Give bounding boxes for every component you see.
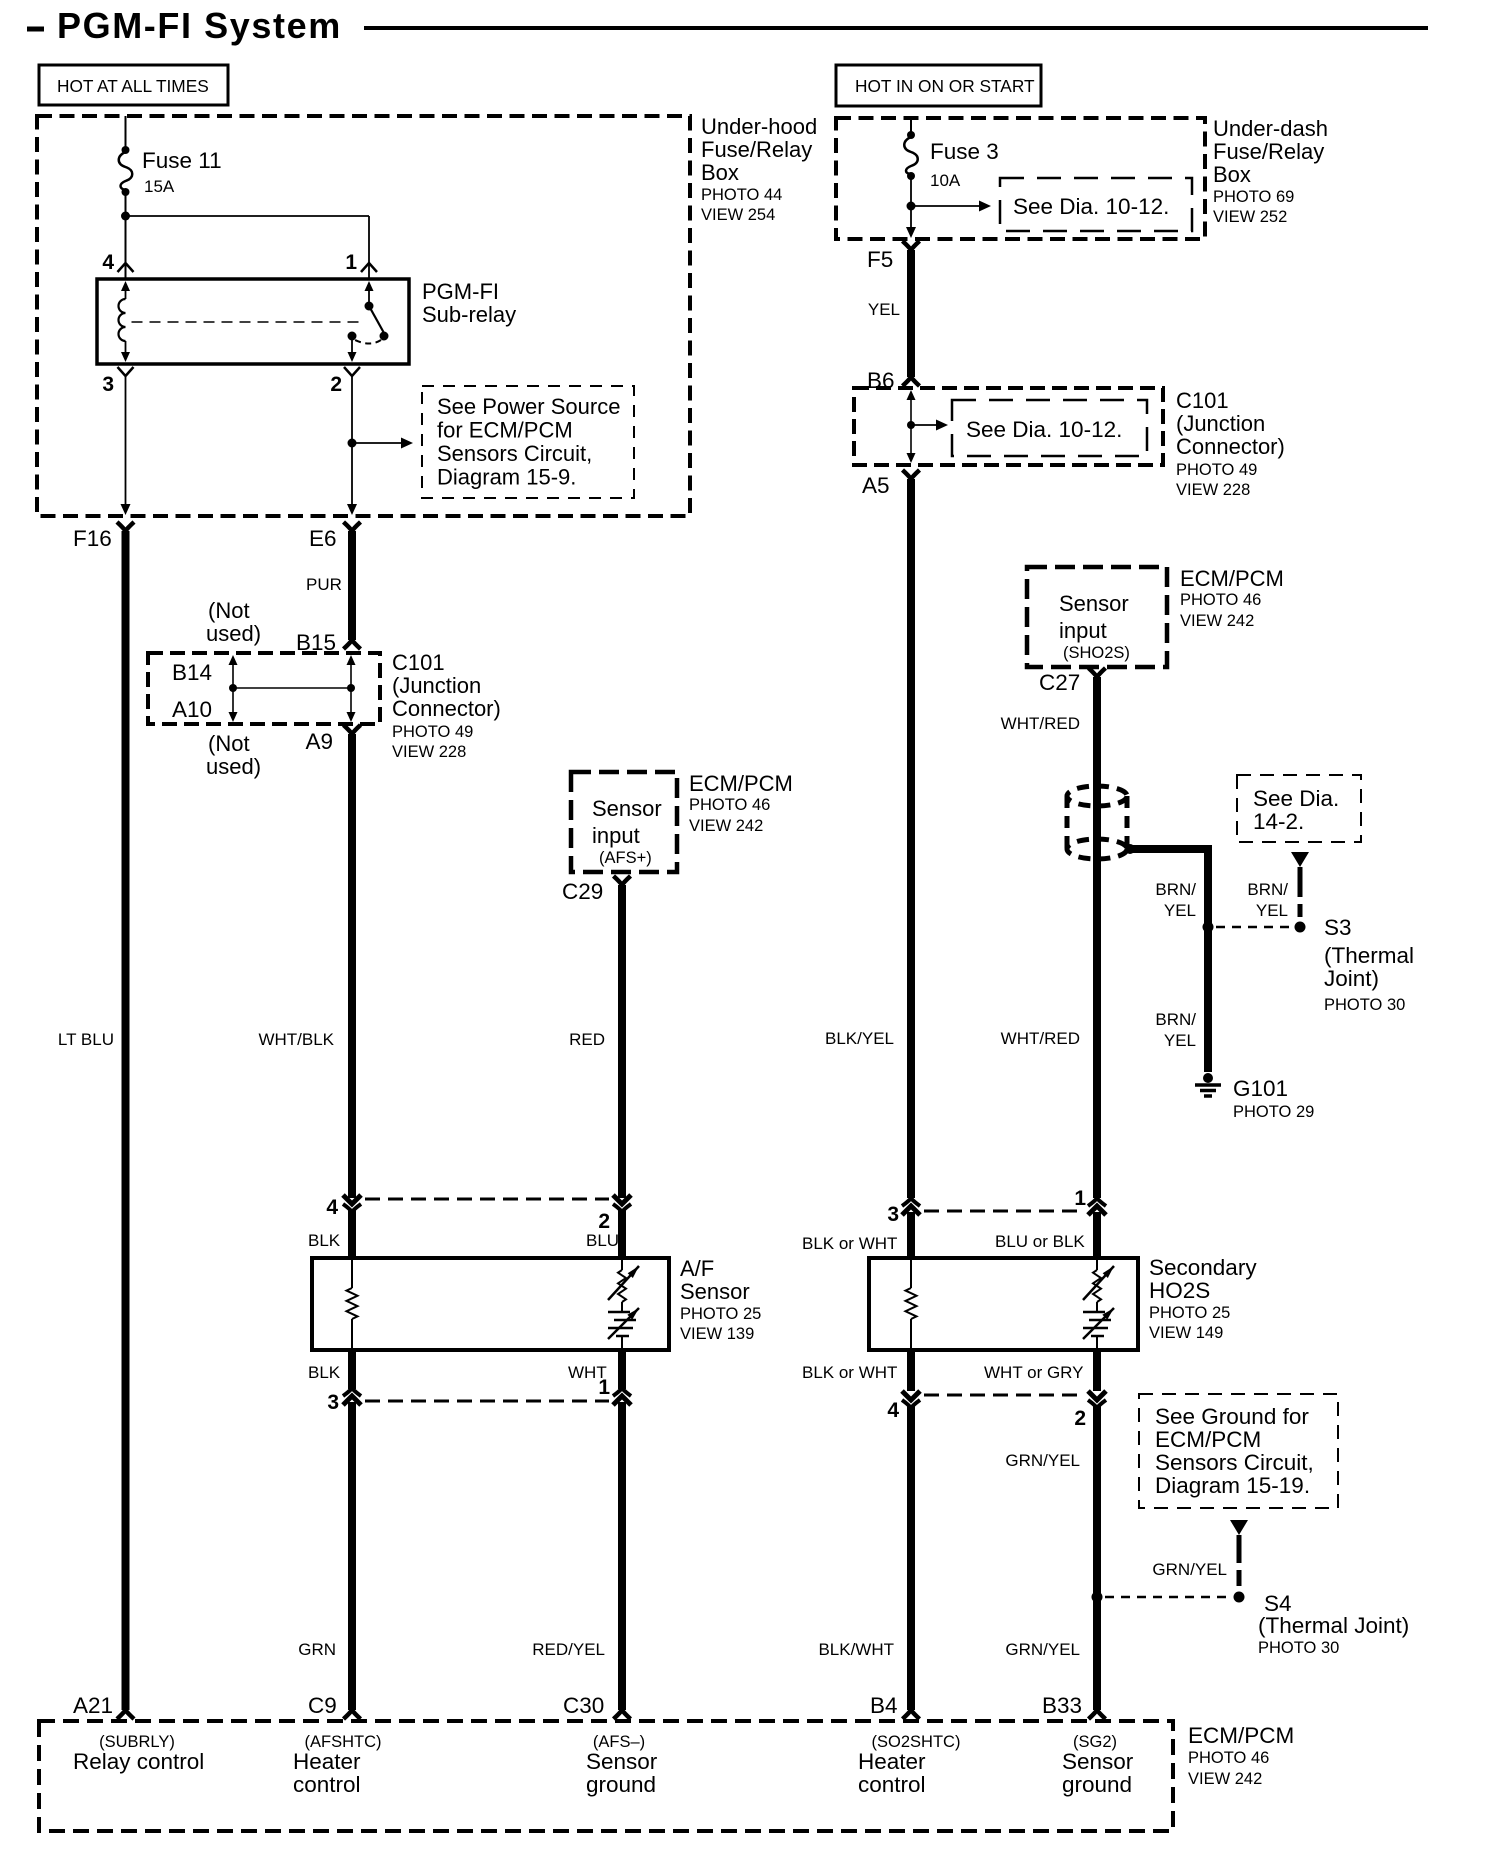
svg-text:PHOTO 46: PHOTO 46 — [689, 796, 770, 814]
thermal joint S3 dot — [1295, 922, 1306, 933]
svg-text:S3: S3 — [1324, 915, 1352, 940]
svg-text:VIEW 228: VIEW 228 — [392, 743, 466, 761]
relay internal dashed link — [132, 321, 361, 323]
junction dot S3 (wire side) — [1203, 922, 1214, 933]
svg-text:1: 1 — [345, 251, 357, 274]
svg-text:PHOTO 25: PHOTO 25 — [680, 1305, 761, 1323]
wire: HO2S pin 4 to B4 (BLK/WHT) — [907, 1406, 915, 1710]
dashed connector line 3-1 — [365, 1400, 609, 1403]
svg-text:PHOTO 49: PHOTO 49 — [392, 723, 473, 741]
wire: pin 2 into A/F sensor — [618, 1210, 626, 1258]
under-dash fuse/relay box (dashed) — [836, 118, 1205, 239]
relay coil — [125, 288, 127, 299]
svg-text:(SHO2S): (SHO2S) — [1063, 644, 1130, 662]
svg-text:A/F: A/F — [680, 1256, 714, 1281]
wire: fuse to relay pin 4 — [125, 194, 127, 279]
svg-text:14-2.: 14-2. — [1253, 809, 1304, 834]
shield around WHT/RED wire — [1067, 786, 1127, 806]
svg-text:Diagram 15-9.: Diagram 15-9. — [437, 465, 576, 490]
svg-text:Fuse 11: Fuse 11 — [142, 148, 222, 173]
svg-text:RED: RED — [569, 1030, 605, 1049]
svg-text:VIEW 149: VIEW 149 — [1149, 1324, 1223, 1342]
svg-text:2: 2 — [330, 373, 342, 396]
svg-text:1: 1 — [598, 1376, 610, 1399]
inline connector pair pin 2 (A/F) — [613, 1195, 631, 1204]
svg-text:4: 4 — [102, 251, 114, 274]
svg-text:GRN/YEL: GRN/YEL — [1005, 1451, 1080, 1470]
wire: A/F sensor to pin 3 — [348, 1350, 356, 1389]
wire: shield to G101 (BRN/YEL) — [1130, 849, 1208, 1072]
svg-text:(Junction: (Junction — [392, 673, 481, 698]
svg-text:Diagram 15-19.: Diagram 15-19. — [1155, 1473, 1310, 1498]
svg-text:WHT/RED: WHT/RED — [1001, 714, 1080, 733]
svg-text:ECM/PCM: ECM/PCM — [689, 771, 793, 796]
svg-text:F5: F5 — [867, 247, 893, 272]
HO2S heater resistor — [910, 1258, 912, 1288]
svg-text:3: 3 — [887, 1203, 899, 1226]
svg-text:HOT AT ALL TIMES: HOT AT ALL TIMES — [57, 76, 209, 96]
svg-text:See Dia.: See Dia. — [1253, 786, 1339, 811]
svg-text:PHOTO 69: PHOTO 69 — [1213, 188, 1294, 206]
svg-text:E6: E6 — [309, 526, 337, 551]
svg-text:BRN/: BRN/ — [1155, 880, 1196, 899]
svg-text:BLK or WHT: BLK or WHT — [802, 1363, 897, 1382]
svg-text:WHT/RED: WHT/RED — [1001, 1029, 1080, 1048]
svg-text:Sensors Circuit,: Sensors Circuit, — [437, 441, 592, 466]
inline connector pair pin 2 (HO2S) — [1088, 1391, 1106, 1400]
svg-text:LT BLU: LT BLU — [58, 1030, 114, 1049]
wire: pin 4 into A/F sensor — [348, 1210, 356, 1258]
svg-text:Sensor: Sensor — [1059, 591, 1129, 616]
svg-text:Heater: Heater — [858, 1749, 926, 1774]
svg-text:PHOTO 49: PHOTO 49 — [1176, 461, 1257, 479]
connector B6 — [903, 377, 920, 386]
wire: box top to fuse 11 — [125, 116, 127, 148]
svg-text:Joint): Joint) — [1324, 966, 1379, 991]
thermal joint S4 dot — [1234, 1592, 1245, 1603]
wire: E6 to B15 (PUR) — [348, 531, 356, 640]
svg-text:VIEW 254: VIEW 254 — [701, 206, 775, 224]
svg-text:Fuse 3: Fuse 3 — [930, 139, 999, 164]
svg-text:HO2S: HO2S — [1149, 1278, 1210, 1303]
svg-text:4: 4 — [326, 1196, 338, 1219]
svg-text:used): used) — [206, 754, 261, 779]
svg-text:BLU or BLK: BLU or BLK — [995, 1232, 1085, 1251]
note box: See Power Source — [422, 386, 634, 498]
svg-text:BRN/: BRN/ — [1155, 1010, 1196, 1029]
svg-text:Box: Box — [701, 160, 739, 185]
svg-text:BLK/WHT: BLK/WHT — [818, 1640, 894, 1659]
connector C29 — [614, 876, 631, 885]
svg-text:ECM/PCM: ECM/PCM — [1180, 566, 1284, 591]
svg-text:GRN: GRN — [298, 1640, 336, 1659]
svg-text:F16: F16 — [73, 526, 112, 551]
svg-text:VIEW 242: VIEW 242 — [1180, 612, 1254, 630]
title rule — [364, 26, 1428, 30]
svg-text:(Junction: (Junction — [1176, 411, 1265, 436]
connector B15 — [344, 640, 361, 649]
svg-text:Sensor: Sensor — [680, 1279, 750, 1304]
svg-text:ECM/PCM: ECM/PCM — [1155, 1427, 1261, 1452]
label box: HOT AT ALL TIMES — [39, 65, 228, 105]
dashed link to S3 — [1216, 926, 1292, 929]
svg-text:C101: C101 — [1176, 388, 1229, 413]
wire: A/F pin 3 to C9 (GRN) — [348, 1402, 356, 1710]
svg-text:YEL: YEL — [868, 300, 900, 319]
ECM/PCM sensor input (SHO2S) box — [1027, 567, 1167, 667]
svg-text:Fuse/Relay: Fuse/Relay — [1213, 139, 1324, 164]
svg-text:PUR: PUR — [306, 575, 342, 594]
wire: branch to relay pin 1 — [126, 215, 370, 217]
svg-text:B33: B33 — [1042, 1693, 1082, 1718]
svg-text:BLU: BLU — [586, 1231, 619, 1250]
fuse F3 (Fuse 3 10A) — [907, 131, 915, 139]
svg-text:VIEW 139: VIEW 139 — [680, 1325, 754, 1343]
wire: A/F sensor to pin 1 — [618, 1350, 626, 1389]
svg-text:4: 4 — [887, 1399, 899, 1422]
wire: fuse 3 to box bottom — [910, 178, 912, 228]
svg-text:3: 3 — [327, 1391, 339, 1414]
svg-text:(Not: (Not — [208, 598, 250, 623]
arrow: branch to See Dia 10-12 (C101) — [911, 424, 936, 426]
connector A5 — [903, 470, 920, 479]
relay coil arrows — [121, 281, 130, 291]
wire: pin 3 into HO2S — [907, 1212, 915, 1258]
wire: relay pin 2 to box edge — [351, 376, 353, 505]
junction connector C101 box (left) — [148, 653, 380, 724]
C101 right box arrow — [907, 390, 916, 400]
wire: A/F pin 1 to C30 (RED/YEL) — [618, 1402, 626, 1710]
svg-text:for ECM/PCM: for ECM/PCM — [437, 418, 573, 443]
connector F16 — [117, 522, 134, 531]
svg-text:G101: G101 — [1233, 1076, 1288, 1101]
svg-text:PHOTO 30: PHOTO 30 — [1324, 996, 1405, 1014]
svg-text:Sensors Circuit,: Sensors Circuit, — [1155, 1450, 1314, 1475]
svg-text:PHOTO 29: PHOTO 29 — [1233, 1103, 1314, 1121]
wire: C29 to A/F pin 2 (RED) — [618, 885, 626, 1198]
svg-text:BLK: BLK — [308, 1231, 341, 1250]
ground G101 — [1203, 1073, 1213, 1083]
svg-text:Box: Box — [1213, 162, 1251, 187]
connector chevron pin 3 — [118, 367, 134, 376]
connector chevron pin 4 — [118, 263, 134, 272]
svg-text:See Power Source: See Power Source — [437, 394, 620, 419]
svg-text:BLK or WHT: BLK or WHT — [802, 1234, 897, 1253]
svg-text:Sensor: Sensor — [592, 796, 662, 821]
inline connector pair pin 4 (HO2S) — [902, 1391, 920, 1400]
svg-text:B14: B14 — [172, 660, 212, 685]
svg-text:Heater: Heater — [293, 1749, 361, 1774]
svg-text:3: 3 — [102, 373, 114, 396]
wire: pin 1 into HO2S — [1093, 1212, 1101, 1258]
inline connector pair pin 3 (HO2S) — [902, 1198, 920, 1206]
inline connector pair pin 1 (HO2S) — [1088, 1198, 1106, 1206]
ECM/PCM sensor input (AFS+) box — [571, 772, 677, 872]
junction connector C101 box (right) — [854, 388, 1163, 465]
svg-text:A9: A9 — [305, 729, 333, 754]
connector C9 — [344, 1710, 361, 1719]
A/F sensor box — [312, 1258, 669, 1350]
svg-text:(Not: (Not — [208, 731, 250, 756]
svg-text:C29: C29 — [562, 879, 603, 904]
arrow: branch to See Dia 10-12 (under-dash) — [911, 205, 980, 207]
note box: See Dia. 14-2. — [1237, 775, 1361, 842]
svg-text:(Thermal Joint): (Thermal Joint) — [1258, 1613, 1409, 1638]
arrow: branch to See Power Source — [352, 442, 402, 444]
thermal joint S3 stem — [1291, 852, 1309, 867]
under-hood fuse/relay box (dashed) — [37, 116, 690, 516]
connector A9 — [344, 725, 361, 734]
svg-text:(AFS+): (AFS+) — [599, 849, 652, 867]
wire: A9 to A/F pin 4 (WHT/BLK) — [348, 734, 356, 1198]
connector B33 — [1089, 1710, 1106, 1719]
svg-text:Under-hood: Under-hood — [701, 114, 817, 139]
svg-text:Sensor: Sensor — [1062, 1749, 1134, 1774]
svg-text:ground: ground — [586, 1772, 656, 1797]
relay box: PGM-FI Sub-relay — [97, 279, 409, 364]
wire: HO2S to pin 2 — [1093, 1350, 1101, 1391]
dashed connector line 4-2 — [365, 1198, 609, 1201]
connector B4 — [903, 1710, 920, 1719]
svg-text:C27: C27 — [1039, 670, 1080, 695]
svg-text:VIEW 252: VIEW 252 — [1213, 208, 1287, 226]
svg-text:input: input — [1059, 618, 1107, 643]
svg-text:VIEW 228: VIEW 228 — [1176, 481, 1250, 499]
svg-text:BLK: BLK — [308, 1363, 341, 1382]
connector chevron pin 1 — [361, 263, 377, 272]
dashed link to S4 — [1105, 1596, 1231, 1599]
dashed connector line 4-2 (HO2S) — [924, 1394, 1084, 1397]
svg-text:BRN/: BRN/ — [1247, 880, 1288, 899]
svg-text:B4: B4 — [870, 1693, 898, 1718]
label box: HOT IN ON OR START — [836, 65, 1041, 106]
title dash — [27, 27, 44, 32]
svg-text:PHOTO 25: PHOTO 25 — [1149, 1304, 1230, 1322]
inline connector pair pin 1 (A/F) — [613, 1388, 631, 1396]
C101 wire link — [233, 687, 351, 689]
svg-text:PHOTO 30: PHOTO 30 — [1258, 1639, 1339, 1657]
svg-text:C9: C9 — [308, 1693, 337, 1718]
svg-text:VIEW 242: VIEW 242 — [1188, 1770, 1262, 1788]
svg-text:1: 1 — [1074, 1187, 1086, 1210]
wire: F5 to B6 (YEL) — [907, 250, 915, 377]
svg-text:ground: ground — [1062, 1772, 1132, 1797]
svg-text:RED/YEL: RED/YEL — [532, 1640, 605, 1659]
fuse F11 (Fuse 11 15A) — [122, 146, 130, 154]
svg-text:Connector): Connector) — [392, 696, 501, 721]
svg-text:control: control — [293, 1772, 361, 1797]
svg-text:Sub-relay: Sub-relay — [422, 302, 516, 327]
svg-text:Sensor: Sensor — [586, 1749, 658, 1774]
relay switch arm — [365, 281, 374, 291]
wire: relay pin 3 to box edge — [125, 376, 127, 505]
note box: See Ground for ECM/PCM — [1139, 1394, 1338, 1508]
svg-text:YEL: YEL — [1164, 1031, 1196, 1050]
svg-text:Relay control: Relay control — [73, 1749, 204, 1774]
svg-text:See Ground for: See Ground for — [1155, 1404, 1309, 1429]
svg-text:WHT/BLK: WHT/BLK — [258, 1030, 334, 1049]
svg-text:See Dia. 10-12.: See Dia. 10-12. — [1013, 194, 1169, 219]
svg-text:Connector): Connector) — [1176, 434, 1285, 459]
svg-text:A10: A10 — [172, 697, 212, 722]
svg-text:PGM-FI System: PGM-FI System — [57, 5, 342, 46]
svg-text:input: input — [592, 823, 640, 848]
svg-text:See Dia. 10-12.: See Dia. 10-12. — [966, 417, 1122, 442]
svg-text:10A: 10A — [930, 171, 961, 190]
svg-text:2: 2 — [598, 1210, 610, 1233]
inline connector pair pin 4 (A/F) — [343, 1195, 361, 1204]
svg-text:BLK/YEL: BLK/YEL — [825, 1029, 894, 1048]
svg-text:GRN/YEL: GRN/YEL — [1152, 1560, 1227, 1579]
svg-text:WHT or GRY: WHT or GRY — [984, 1363, 1084, 1382]
svg-text:HOT IN ON OR START: HOT IN ON OR START — [855, 76, 1035, 96]
svg-text:C30: C30 — [563, 1693, 604, 1718]
connector chevron pin 2 — [344, 367, 360, 376]
svg-text:C101: C101 — [392, 650, 445, 675]
connector F5 — [903, 241, 920, 250]
note box: See Dia. 10-12. (under-dash) — [1000, 178, 1192, 231]
A/F heater resistor — [351, 1258, 353, 1288]
wire: F16 to A21 (LT BLU) — [122, 531, 130, 1710]
secondary HO2S box — [869, 1258, 1138, 1350]
svg-text:GRN/YEL: GRN/YEL — [1005, 1640, 1080, 1659]
svg-text:Fuse/Relay: Fuse/Relay — [701, 137, 812, 162]
C101 right arrow B15-A9 — [347, 655, 356, 665]
connector E6 — [344, 522, 361, 531]
svg-text:YEL: YEL — [1256, 901, 1288, 920]
wire: HO2S pin 2 to B33 (GRN/YEL) — [1093, 1406, 1101, 1710]
svg-text:2: 2 — [1074, 1407, 1086, 1430]
svg-text:PHOTO 46: PHOTO 46 — [1188, 1749, 1269, 1767]
svg-text:A21: A21 — [73, 1693, 113, 1718]
wire: C27 to shield (WHT/RED) — [1093, 677, 1101, 1198]
connector A21 — [117, 1710, 134, 1719]
wire: box top to fuse 3 — [910, 118, 912, 133]
HO2S sensor cell — [1096, 1258, 1098, 1270]
svg-text:PGM-FI: PGM-FI — [422, 279, 499, 304]
svg-text:control: control — [858, 1772, 926, 1797]
svg-text:VIEW 242: VIEW 242 — [689, 817, 763, 835]
ECM/PCM bottom box (dashed) — [39, 1721, 1173, 1831]
wire: HO2S to pin 4 — [907, 1350, 915, 1391]
note box: See Dia. 10-12. (C101) — [952, 400, 1147, 456]
C101 left arrow B14-A10 — [229, 655, 238, 665]
connector C30 — [614, 1710, 631, 1719]
thermal joint S4 stem — [1230, 1520, 1248, 1535]
svg-text:(Thermal: (Thermal — [1324, 943, 1414, 968]
wire: A5 to HO2S pin 3 (BLK/YEL) — [907, 479, 915, 1198]
inline connector pair pin 3 (A/F) — [343, 1388, 361, 1396]
svg-text:PHOTO 44: PHOTO 44 — [701, 186, 782, 204]
A/F sensor cell — [621, 1258, 623, 1270]
svg-text:ECM/PCM: ECM/PCM — [1188, 1723, 1294, 1748]
svg-text:15A: 15A — [144, 177, 175, 196]
svg-text:Secondary: Secondary — [1149, 1255, 1257, 1280]
svg-text:used): used) — [206, 621, 261, 646]
junction dot S4 (wire side) — [1092, 1592, 1103, 1603]
dashed connector line 3-1 (HO2S) — [924, 1210, 1084, 1213]
svg-text:YEL: YEL — [1164, 901, 1196, 920]
svg-text:Under-dash: Under-dash — [1213, 116, 1328, 141]
svg-text:PHOTO 46: PHOTO 46 — [1180, 591, 1261, 609]
svg-text:A5: A5 — [862, 473, 890, 498]
connector C27 — [1089, 668, 1106, 677]
